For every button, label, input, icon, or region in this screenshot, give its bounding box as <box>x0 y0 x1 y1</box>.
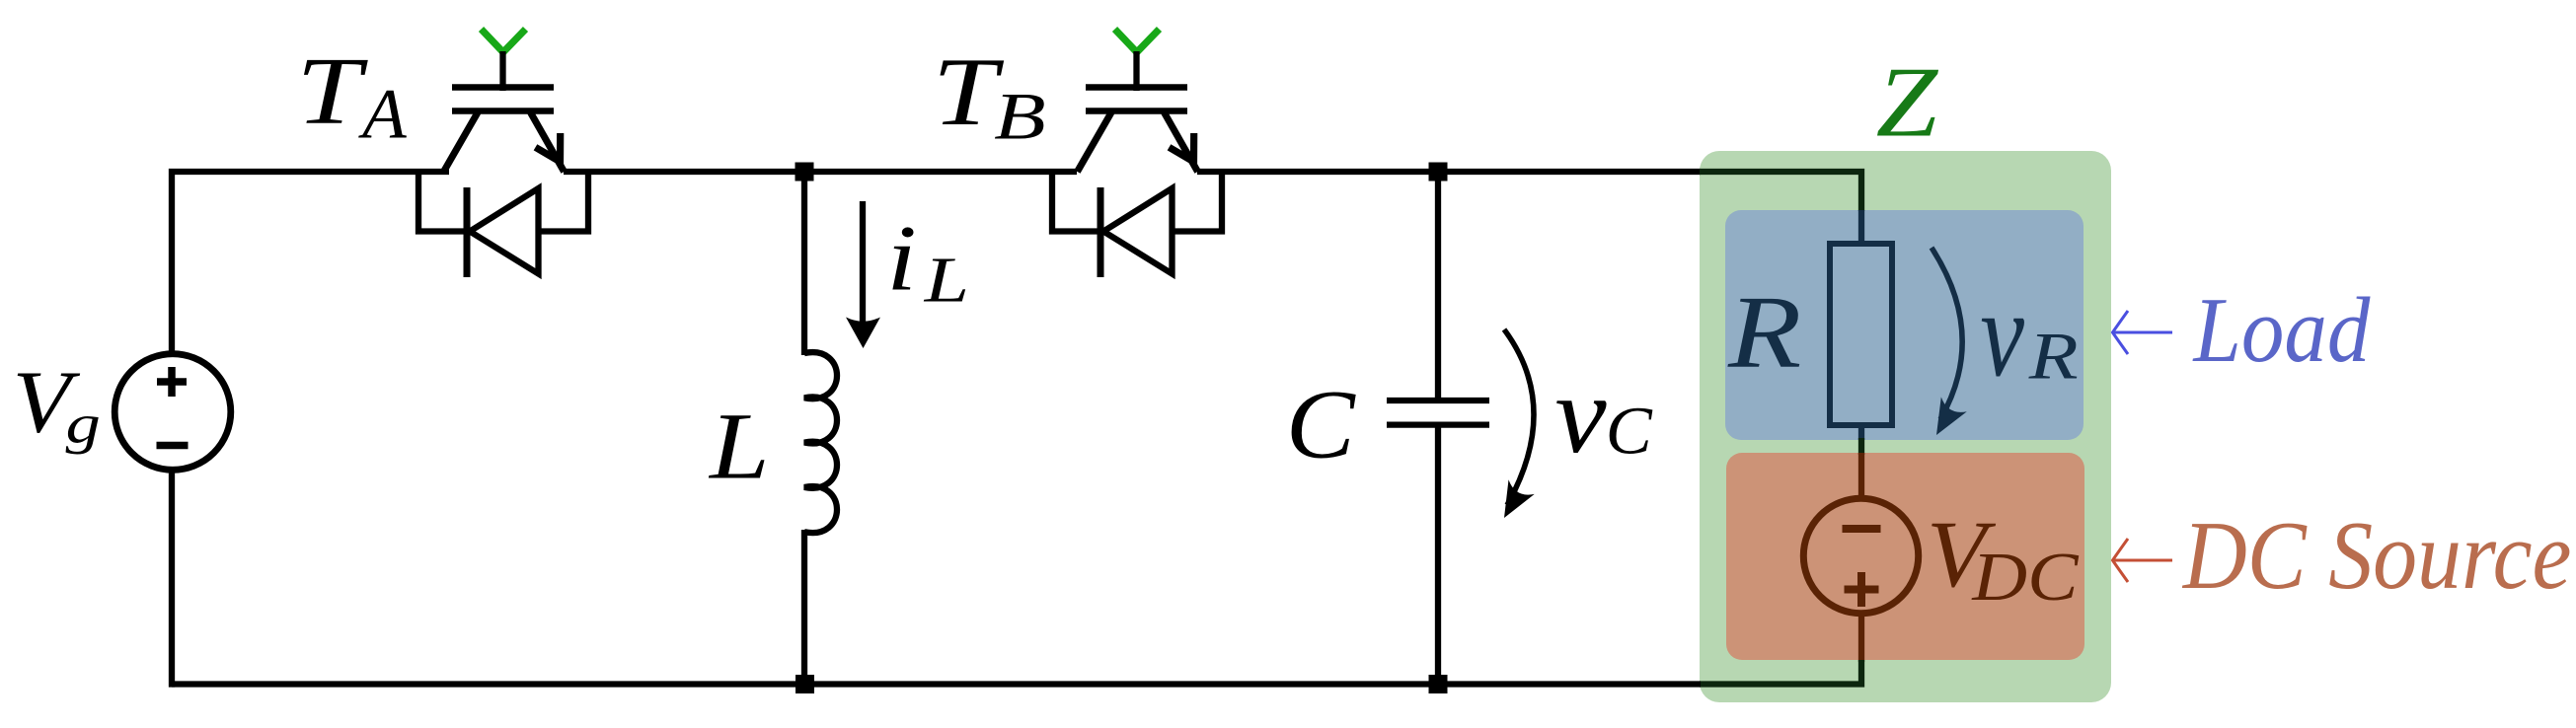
Load arrow <box>2113 311 2173 354</box>
svg-text:Load: Load <box>2192 278 2371 382</box>
svg-text:C: C <box>1286 371 1357 479</box>
diode DA loop <box>418 169 467 232</box>
Vg minus sign <box>157 442 189 450</box>
svg-text:B: B <box>994 79 1046 153</box>
transistor TA <box>444 30 565 173</box>
TB body bar <box>1086 108 1187 114</box>
TA right slant <box>531 112 565 172</box>
svg-text:g: g <box>66 393 101 454</box>
svg-text:L: L <box>924 244 969 316</box>
wire resistor to blue box bottom <box>1858 422 1864 440</box>
label iL <box>886 206 917 311</box>
wire top-left to TA <box>172 172 449 351</box>
wire capacitor to bottom node <box>1435 425 1441 685</box>
wire node to inductor <box>801 172 807 355</box>
TA arrowhead <box>536 133 561 162</box>
svg-text:i: i <box>886 206 917 311</box>
node square bottom-L <box>796 675 814 693</box>
svg-text:L: L <box>708 394 770 499</box>
TA body bar <box>452 108 554 114</box>
wire node to capacitor <box>1435 172 1441 400</box>
label vC <box>1554 353 1606 475</box>
label Load <box>2192 278 2371 382</box>
label Vg <box>13 354 81 452</box>
svg-text:R: R <box>1727 274 1801 389</box>
VDC minus sign <box>1843 525 1881 533</box>
wire VDC circle to orange box bottom <box>1858 616 1864 662</box>
wire inside green box to corner, down to blue box <box>1700 172 1861 211</box>
svg-text:v: v <box>1554 353 1606 475</box>
svg-text:v: v <box>1980 265 2024 402</box>
diode DB cathode bar <box>1098 187 1104 277</box>
label VDC <box>1927 502 1997 607</box>
left rail lower <box>169 473 175 688</box>
Vg source circle <box>114 354 231 471</box>
VDC plus sign <box>1845 572 1879 607</box>
node square bottom-C <box>1429 675 1448 693</box>
TA left slant <box>444 112 479 172</box>
label R <box>1727 274 1801 389</box>
DC Source arrow <box>2113 539 2173 582</box>
TA gate Y (green) <box>482 30 526 53</box>
wire between blue and orange boxes <box>1858 438 1864 455</box>
TB arrowhead <box>1170 133 1194 162</box>
label C <box>1286 371 1357 479</box>
vC arc arrow <box>1504 329 1534 505</box>
node square top-C <box>1429 163 1448 182</box>
svg-text:T: T <box>296 39 368 145</box>
label TA <box>296 39 368 145</box>
TA gate stem <box>499 51 505 91</box>
TB gate Y (green) <box>1115 30 1160 53</box>
svg-text:DC Source: DC Source <box>2181 502 2571 610</box>
diode DA cathode bar <box>464 187 471 277</box>
VDC source circle <box>1803 498 1918 613</box>
TB gate stem <box>1133 51 1139 91</box>
inductor L coil <box>804 352 837 533</box>
wire TA to TB <box>564 169 1077 175</box>
svg-text:Z: Z <box>1876 46 1939 158</box>
TB left slant <box>1078 112 1112 172</box>
label DC Source <box>2181 502 2571 610</box>
iL arrow <box>860 201 866 326</box>
resistor R <box>1830 244 1892 425</box>
node square top-L <box>796 163 814 182</box>
capacitor C plates <box>1387 398 1489 403</box>
wire orange box top to VDC circle <box>1858 453 1864 496</box>
vR arc arrow <box>1932 248 1962 419</box>
diode DB loop <box>1052 169 1100 232</box>
svg-text:C: C <box>1606 394 1654 469</box>
svg-text:A: A <box>358 74 407 153</box>
wire inductor to bottom node <box>801 530 807 685</box>
TB right slant <box>1165 112 1198 172</box>
transistor TB <box>1078 30 1198 173</box>
wire TB to green box <box>1197 169 1701 175</box>
Z region green box <box>1700 151 2111 702</box>
label TB <box>933 38 1005 146</box>
Load blue box <box>1725 210 2084 440</box>
TB gate bar <box>1086 84 1187 91</box>
label L <box>708 394 770 499</box>
Vg plus sign <box>157 367 187 397</box>
bottom rail <box>172 681 1701 687</box>
wire into blue box to resistor <box>1858 210 1864 247</box>
diode DB triangle <box>1103 188 1173 274</box>
label vR <box>1980 265 2024 402</box>
label Z <box>1876 46 1939 158</box>
wire orange box bottom to bottom rail corner <box>1700 660 1861 685</box>
svg-text:R: R <box>2028 320 2079 394</box>
svg-text:DC: DC <box>1971 539 2079 615</box>
DC Source orange box <box>1726 453 2084 660</box>
TA gate bar <box>452 84 554 91</box>
diode DA triangle <box>470 188 539 274</box>
